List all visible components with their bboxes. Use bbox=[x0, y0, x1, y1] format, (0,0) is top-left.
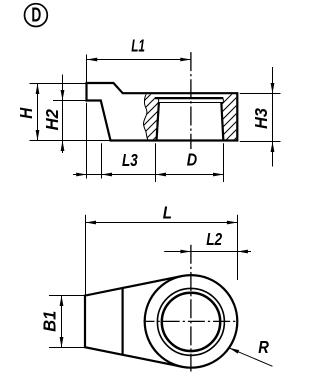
dimension B1 bbox=[40, 296, 84, 348]
svg-text:L3: L3 bbox=[122, 150, 138, 170]
dimension H3 bbox=[240, 67, 281, 167]
plan view: body outline tangent lines and flat end bbox=[85, 276, 182, 367]
section view: tapered hole right wall bbox=[221, 102, 223, 140]
dimension L bbox=[86, 202, 238, 294]
svg-text:L1: L1 bbox=[131, 35, 145, 55]
plan view: ring outer circle bbox=[145, 275, 238, 368]
section view: hatching left band bbox=[105, 90, 203, 140]
dimension H bbox=[16, 84, 110, 141]
section view: vertical centerline bbox=[190, 52, 192, 149]
dimension L3 bbox=[76, 103, 138, 179]
plan view: chamfer edge line bbox=[121, 288, 123, 354]
section view: insert seat line bbox=[155, 97, 224, 99]
plan view: hole circle (thick) bbox=[162, 293, 220, 351]
view label circle D bbox=[25, 4, 48, 27]
dimension D bbox=[156, 143, 224, 182]
dimension R leader bbox=[229, 337, 273, 366]
section view: recess thin lines bbox=[159, 99, 224, 103]
svg-text:D: D bbox=[187, 149, 198, 169]
section view: tapered hole left wall bbox=[157, 102, 159, 140]
svg-text:L2: L2 bbox=[206, 229, 222, 249]
svg-text:H3: H3 bbox=[251, 108, 271, 129]
plan view: vertical centerline bbox=[190, 245, 192, 372]
dimension L3 and D shared line bbox=[73, 174, 224, 176]
dimension L1 bbox=[87, 35, 191, 82]
section view: hatching right band bbox=[186, 90, 284, 140]
dimension H2 bbox=[42, 75, 85, 154]
plan view: chamfer circle (thin) bbox=[157, 288, 224, 355]
svg-text:L: L bbox=[163, 202, 172, 222]
plan view: horizontal centerline bbox=[144, 320, 237, 322]
svg-text:H2: H2 bbox=[42, 109, 62, 131]
section view: break (wavy) line bbox=[143, 94, 147, 139]
section view: part outline bbox=[87, 83, 238, 141]
svg-text:R: R bbox=[258, 337, 269, 357]
svg-text:D: D bbox=[31, 5, 41, 27]
svg-text:H: H bbox=[16, 107, 36, 118]
svg-text:B1: B1 bbox=[40, 311, 60, 332]
dimension L2 bbox=[164, 229, 251, 254]
